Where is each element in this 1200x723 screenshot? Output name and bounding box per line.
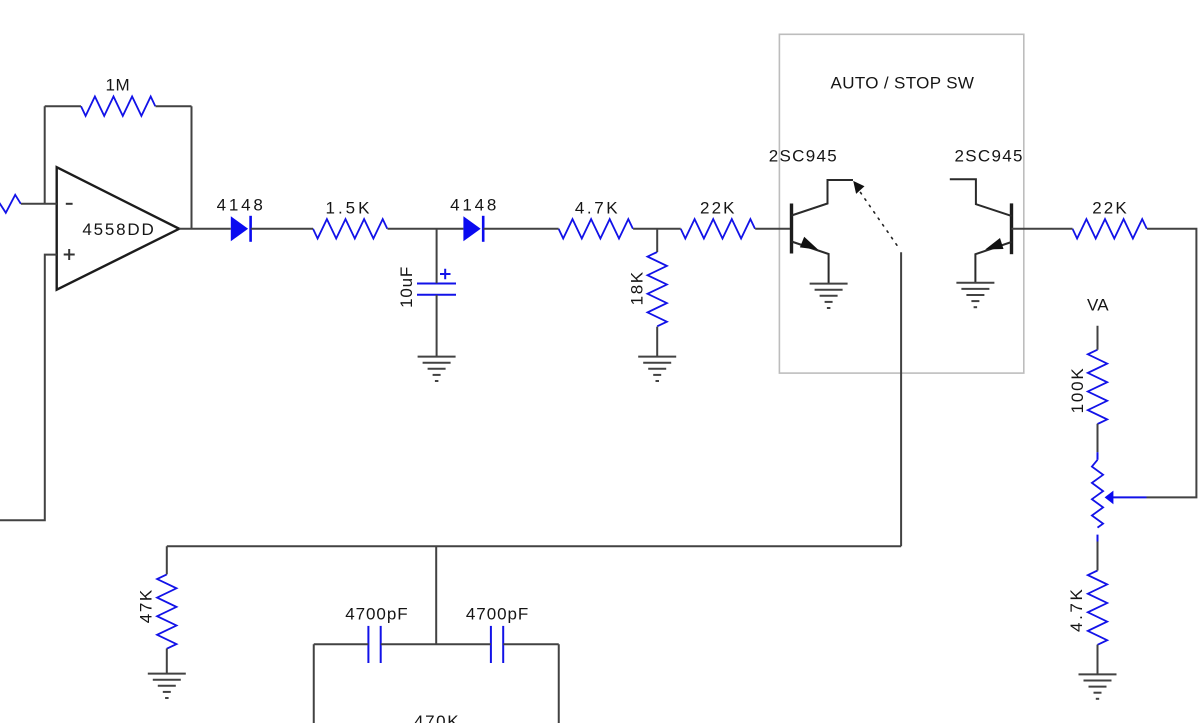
svg-text:4.7K: 4.7K: [1067, 587, 1086, 632]
svg-text:4.7K: 4.7K: [575, 198, 620, 217]
svg-text:4148: 4148: [217, 196, 266, 215]
svg-text:4148: 4148: [450, 196, 499, 215]
svg-text:22K: 22K: [1092, 198, 1129, 217]
svg-text:100K: 100K: [1068, 366, 1087, 413]
svg-text:4700pF: 4700pF: [345, 604, 408, 623]
svg-text:2SC945: 2SC945: [769, 146, 838, 165]
svg-text:4700pF: 4700pF: [466, 604, 529, 623]
svg-text:2SC945: 2SC945: [954, 146, 1023, 165]
svg-text:10uF: 10uF: [397, 266, 416, 308]
svg-text:1M: 1M: [105, 75, 130, 94]
svg-text:18K: 18K: [628, 270, 647, 305]
svg-text:VA: VA: [1087, 296, 1109, 315]
svg-text:4558DD: 4558DD: [82, 220, 155, 239]
svg-text:AUTO / STOP SW: AUTO / STOP SW: [831, 73, 975, 92]
svg-text:22K: 22K: [700, 198, 737, 217]
svg-text:470K: 470K: [414, 712, 460, 723]
svg-text:47K: 47K: [137, 588, 156, 623]
svg-text:1.5K: 1.5K: [326, 198, 373, 217]
